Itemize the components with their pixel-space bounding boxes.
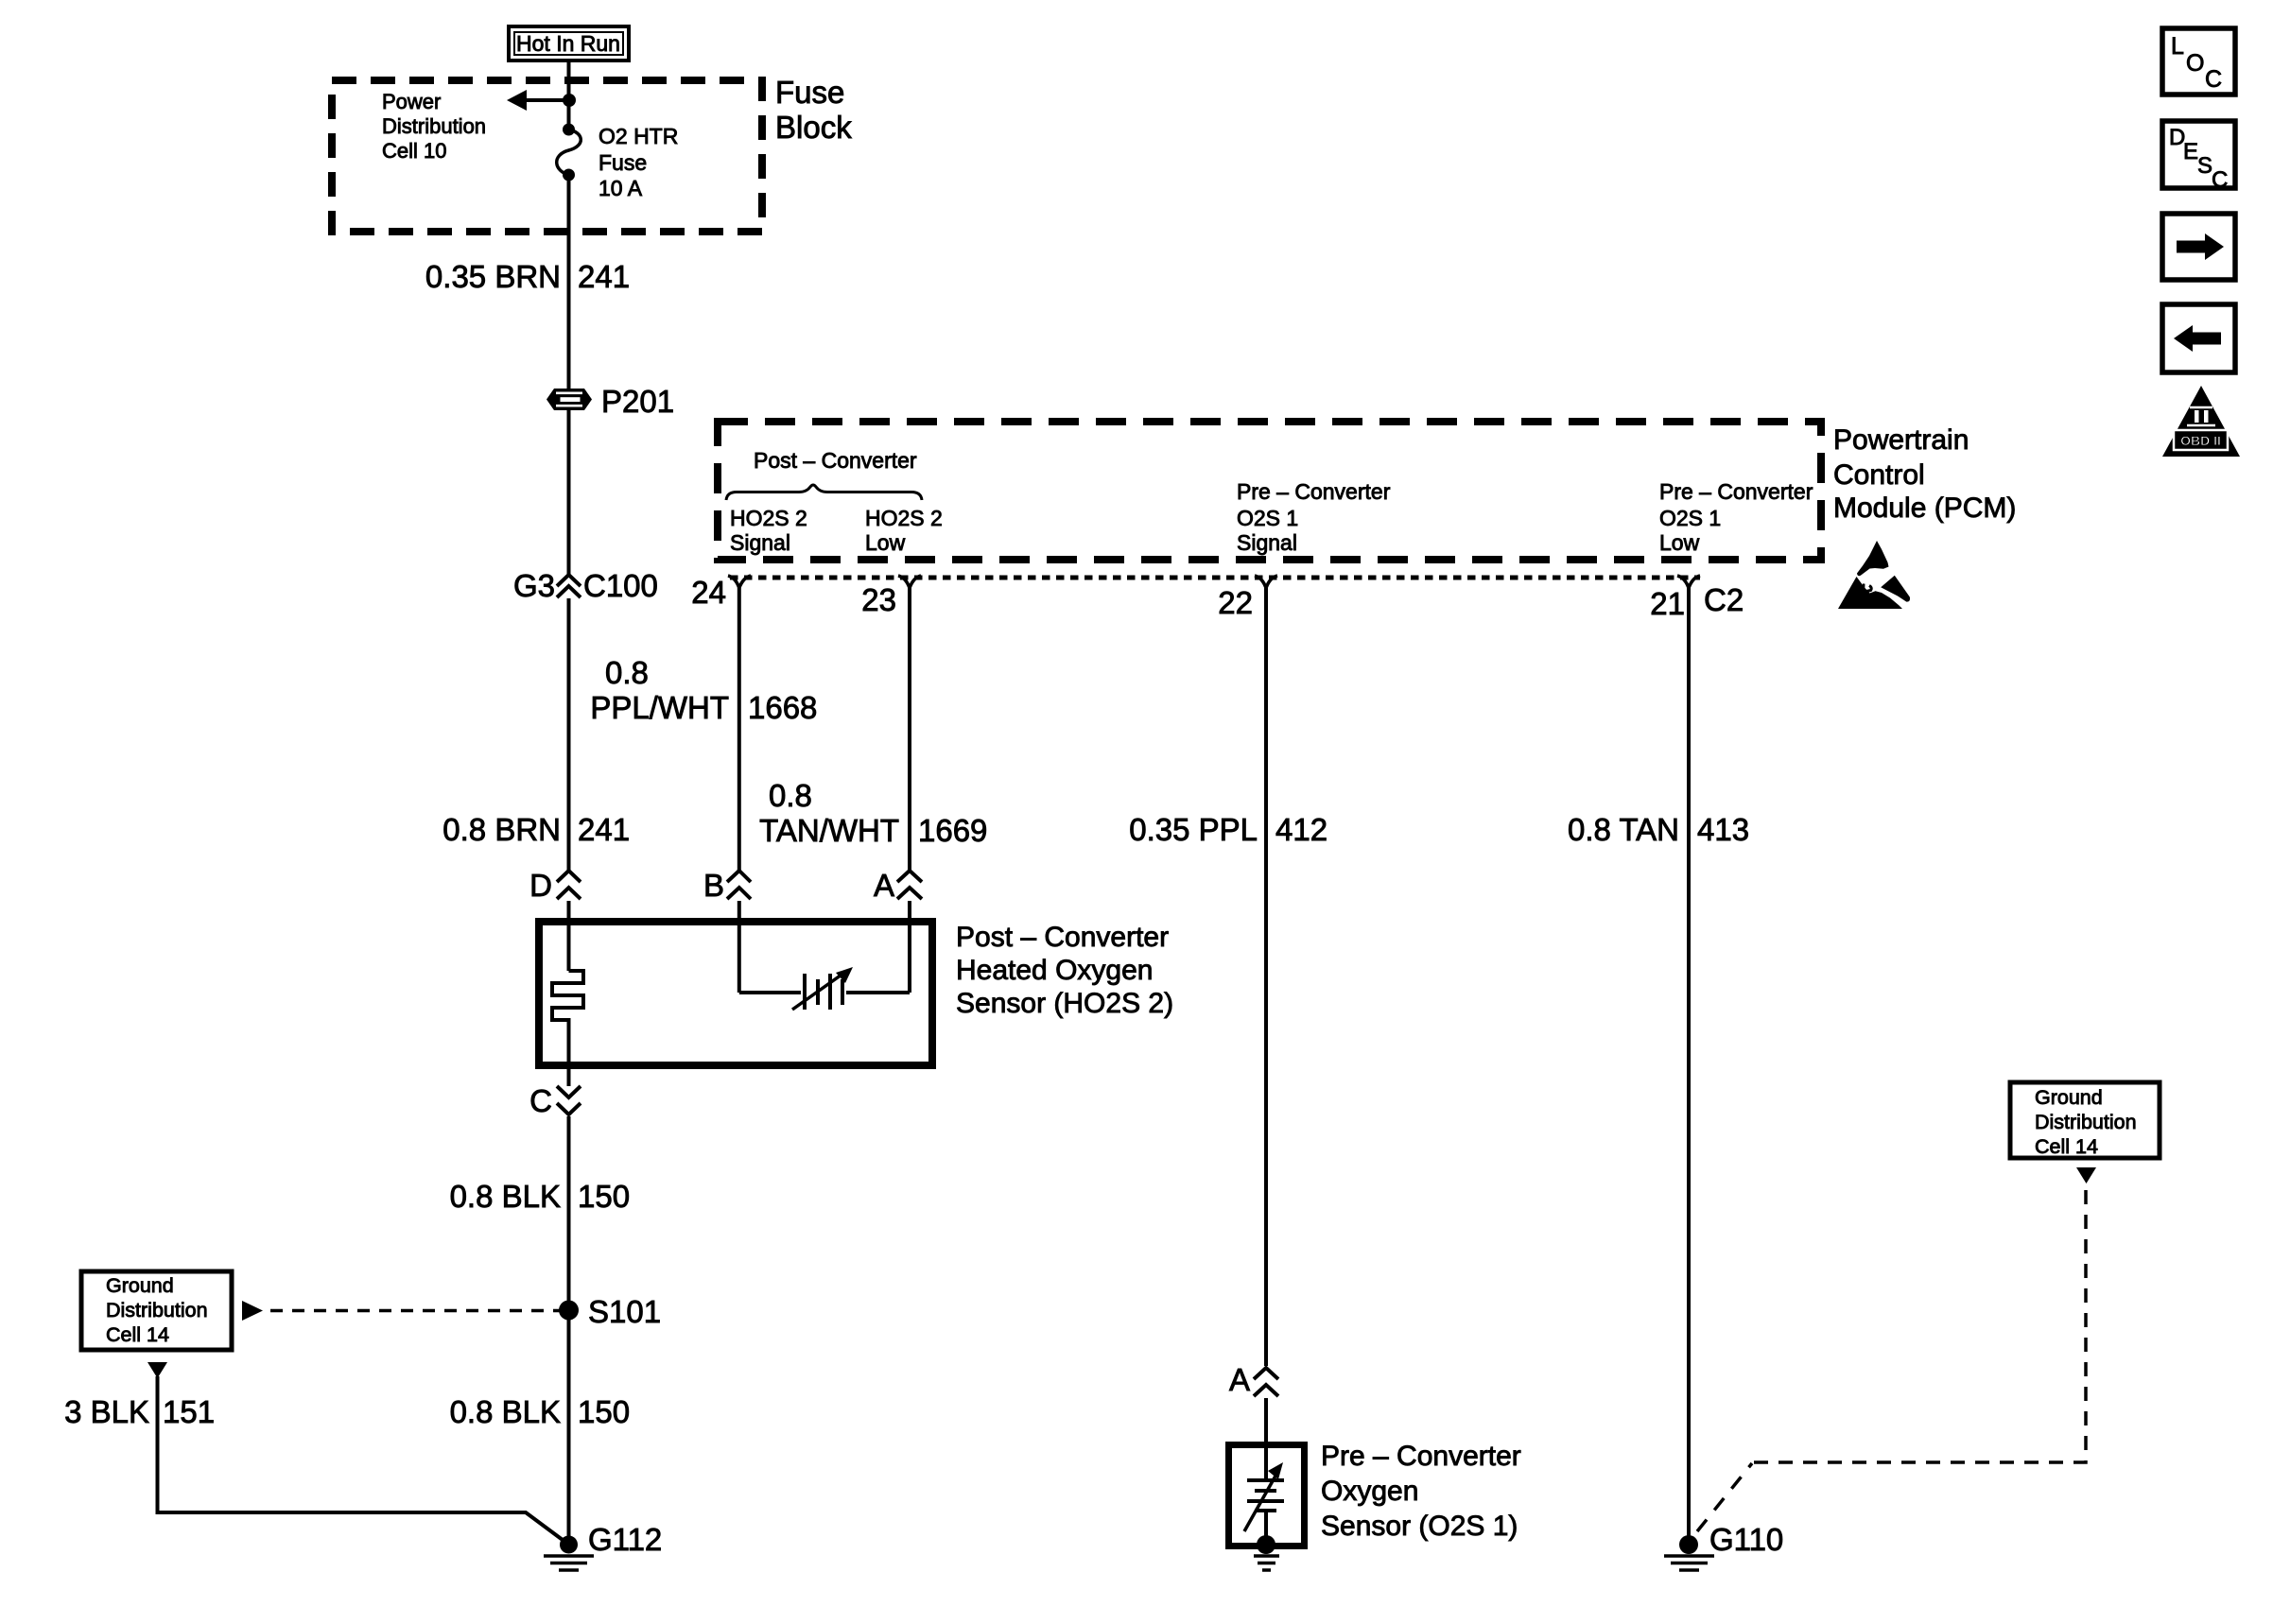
svg-text:10 A: 10 A (599, 176, 643, 200)
svg-text:E: E (2183, 139, 2198, 164)
ground at O2S 1 (1254, 1535, 1279, 1570)
connector D (557, 871, 581, 899)
wire from Hot In Run into fuse block (567, 60, 571, 130)
icon ESD warning (1838, 541, 1910, 609)
svg-text:Power: Power (382, 90, 441, 113)
svg-text:G3: G3 (513, 568, 555, 603)
svg-text:150: 150 (578, 1179, 630, 1214)
svg-text:C: C (2205, 66, 2222, 93)
svg-text:C100: C100 (583, 568, 658, 603)
svg-text:A: A (1229, 1362, 1250, 1397)
svg-text:0.8 BLK: 0.8 BLK (450, 1179, 561, 1214)
svg-text:Cell 14: Cell 14 (106, 1323, 169, 1346)
svg-text:0.8 BLK: 0.8 BLK (450, 1394, 561, 1429)
wire down to C100 (567, 408, 571, 575)
svg-text:Pre – Converter: Pre – Converter (1321, 1441, 1521, 1472)
svg-text:151: 151 (163, 1394, 215, 1429)
wire 0.35 PPL 412 (pin 22) (1264, 588, 1268, 1366)
svg-text:3 BLK: 3 BLK (64, 1394, 149, 1429)
wire arrow to Power Distribution Cell 10 (522, 98, 569, 102)
dashed reference line to ground distribution (242, 1301, 263, 1321)
icon DESC (2162, 121, 2235, 193)
svg-text:Signal: Signal (1237, 530, 1297, 555)
connector A (O2S1) (1254, 1368, 1278, 1396)
svg-text:150: 150 (578, 1394, 630, 1429)
wire 3 BLK 151 (158, 1376, 567, 1543)
svg-text:0.35 BRN: 0.35 BRN (425, 259, 561, 294)
svg-text:22: 22 (1218, 585, 1253, 620)
svg-text:23: 23 (861, 582, 896, 617)
svg-text:1669: 1669 (918, 813, 987, 848)
svg-text:Post – Converter: Post – Converter (956, 922, 1169, 953)
svg-text:241: 241 (578, 812, 630, 847)
wire 0.35 BRN 241 (567, 175, 571, 389)
svg-text:Low: Low (1659, 530, 1700, 555)
svg-text:Heated Oxygen: Heated Oxygen (956, 955, 1153, 986)
svg-text:Module (PCM): Module (PCM) (1833, 492, 2016, 524)
svg-text:Sensor (O2S 1): Sensor (O2S 1) (1321, 1511, 1518, 1542)
svg-text:Distribution: Distribution (2035, 1111, 2137, 1133)
svg-text:OBD II: OBD II (2180, 433, 2221, 448)
icon OBD II triangle (2162, 386, 2240, 457)
grommet P201 (547, 389, 592, 410)
svg-text:Hot In Run: Hot In Run (516, 31, 620, 56)
svg-text:S: S (2197, 153, 2212, 179)
svg-text:Ground: Ground (106, 1274, 174, 1297)
wires into HO2S2 box (567, 901, 571, 971)
svg-text:O2S 1: O2S 1 (1659, 506, 1721, 530)
heater element (552, 971, 583, 1086)
svg-text:Fuse: Fuse (775, 75, 844, 110)
svg-text:Sensor (HO2S 2): Sensor (HO2S 2) (956, 988, 1173, 1019)
HO2S 2 sensor box (539, 922, 932, 1065)
svg-text:D: D (529, 868, 552, 903)
pin 23 (898, 576, 921, 588)
pin 24 (728, 576, 751, 588)
icon forward arrow (2162, 214, 2235, 280)
svg-text:G112: G112 (588, 1522, 662, 1557)
power source label Hot In Run (509, 26, 629, 60)
sensing element (O2S 1) (1244, 1462, 1284, 1545)
svg-text:241: 241 (578, 259, 630, 294)
svg-text:Control: Control (1833, 459, 1925, 491)
svg-text:HO2S 2: HO2S 2 (730, 506, 807, 530)
wire 0.8 TAN 413 (pin 21 to G110) (1687, 588, 1691, 1545)
svg-text:Cell 10: Cell 10 (382, 139, 446, 163)
connector B (727, 871, 751, 899)
ground G112 (544, 1536, 594, 1571)
svg-text:412: 412 (1275, 812, 1327, 847)
svg-text:P201: P201 (601, 384, 674, 419)
fuse O2 HTR 10 A (557, 124, 581, 181)
connector C100 pin G3 (chevrons) (557, 575, 581, 597)
svg-text:0.35 PPL: 0.35 PPL (1129, 812, 1258, 847)
svg-text:Cell 14: Cell 14 (2035, 1135, 2098, 1158)
svg-text:0.8 TAN: 0.8 TAN (1568, 812, 1679, 847)
svg-text:O2 HTR: O2 HTR (599, 124, 678, 148)
svg-text:1668: 1668 (748, 690, 817, 725)
sensing element (HO2S 2) (739, 967, 910, 1010)
svg-text:0.8: 0.8 (769, 778, 812, 813)
svg-text:A: A (874, 868, 894, 903)
svg-text:Distribution: Distribution (382, 114, 486, 138)
icon back arrow (2162, 304, 2235, 372)
wire 0.8 BLK 150 (upper) (567, 1116, 571, 1545)
svg-text:Pre – Converter: Pre – Converter (1237, 479, 1391, 504)
svg-text:Distribution: Distribution (106, 1299, 208, 1322)
splice S101 (559, 1301, 579, 1321)
svg-text:413: 413 (1697, 812, 1749, 847)
fuse block (dashed box) (332, 80, 762, 232)
ground distribution cell 14 box (left) (81, 1271, 232, 1350)
connector C2 dotted row (730, 576, 1700, 580)
ground G110 (1664, 1535, 1714, 1570)
svg-text:Post – Converter: Post – Converter (754, 448, 917, 473)
svg-text:C: C (529, 1083, 552, 1118)
svg-text:24: 24 (691, 575, 726, 610)
svg-text:Fuse: Fuse (599, 150, 647, 175)
wire 0.8 TAN/WHT 1669 (pin 23 to A) (908, 588, 911, 871)
svg-text:C: C (2212, 167, 2228, 193)
svg-text:0.8 BRN: 0.8 BRN (442, 812, 561, 847)
svg-text:S101: S101 (588, 1294, 661, 1329)
svg-text:Signal: Signal (730, 530, 790, 555)
svg-text:Pre – Converter: Pre – Converter (1659, 479, 1813, 504)
svg-text:O2S 1: O2S 1 (1237, 506, 1298, 530)
dashed reference from G110 to ground distribution (right) (1697, 1463, 1752, 1531)
svg-text:HO2S 2: HO2S 2 (865, 506, 943, 530)
svg-text:Ground: Ground (2035, 1086, 2103, 1109)
svg-text:Powertrain: Powertrain (1833, 424, 1969, 456)
icon LOC (2162, 28, 2235, 95)
svg-text:21: 21 (1650, 586, 1685, 621)
wire below connector A into sensor (1264, 1398, 1268, 1480)
wire 0.8 PPL/WHT 1668 (pin 24 to B) (737, 588, 741, 871)
arrow from box down to 3 BLK 151 wire (147, 1362, 167, 1378)
node junction dot at fuse block feed (563, 94, 576, 107)
svg-text:Oxygen: Oxygen (1321, 1476, 1418, 1507)
Powertrain Control Module dashed box (718, 422, 1821, 560)
svg-text:O: O (2186, 50, 2204, 77)
svg-text:C2: C2 (1704, 582, 1744, 617)
svg-text:Block: Block (775, 110, 852, 145)
ground distribution cell 14 box (right) (2010, 1082, 2160, 1158)
svg-text:PPL/WHT: PPL/WHT (590, 690, 729, 725)
svg-text:G110: G110 (1709, 1522, 1783, 1557)
svg-text:TAN/WHT: TAN/WHT (759, 813, 899, 848)
svg-text:L: L (2171, 33, 2184, 60)
svg-text:Low: Low (865, 530, 906, 555)
connector A (897, 871, 922, 899)
svg-text:B: B (703, 868, 724, 903)
pin 21 (1677, 576, 1700, 588)
wire 0.8 BRN 241 (567, 598, 571, 871)
svg-text:0.8: 0.8 (605, 655, 649, 690)
connector C (chevrons down) (557, 1086, 581, 1114)
O2S 1 sensor box (1229, 1445, 1305, 1546)
pin 22 (1255, 576, 1277, 588)
